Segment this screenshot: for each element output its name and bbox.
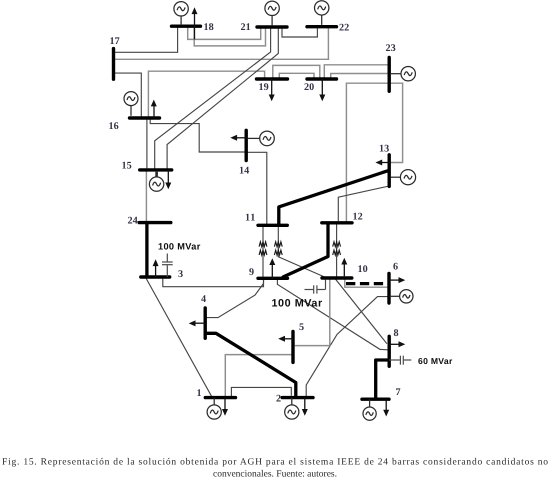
wire 17-22 (114, 28, 329, 60)
generator bus 22 (315, 1, 329, 25)
svg-text:1: 1 (197, 388, 202, 399)
load arrow bus 1 (down) (222, 398, 228, 416)
svg-text:21: 21 (241, 22, 251, 33)
svg-text:12: 12 (353, 211, 363, 222)
wire 8-9 (277, 279, 387, 349)
load arrow bus 6 (right) (389, 277, 405, 283)
generator bus 13 (391, 170, 416, 185)
wire 19-20 circuit 2 (279, 73, 314, 77)
svg-text:18: 18 (204, 22, 214, 33)
wire 2-6 (306, 297, 389, 397)
generator bus 6 (390, 290, 413, 303)
svg-text:7: 7 (396, 387, 401, 398)
bus 14 (244, 130, 247, 160)
bus 21 (257, 25, 287, 28)
capacitor 100 MVar bus 3 (162, 254, 173, 278)
line 6-10 dashed candidate (346, 282, 387, 285)
line 7-8 reinforcement (376, 360, 390, 399)
load arrow bus 14 (left) (230, 135, 246, 141)
bus 10 (322, 276, 352, 279)
svg-text:2: 2 (276, 394, 281, 405)
load arrow bus 10 (up) (341, 258, 347, 278)
wire 1-3 (146, 279, 211, 397)
bus 22 (307, 25, 337, 28)
bus 18 (172, 25, 201, 28)
bus 16 (130, 116, 160, 119)
bus 8 (388, 336, 391, 366)
bus 9 (258, 277, 288, 280)
bus 20 (307, 77, 337, 80)
wire 19-20 circuit 1 (273, 65, 320, 77)
transformer symbol 10-12 (333, 242, 341, 255)
bus 17 (112, 49, 115, 80)
wire 18-21 circuit 2 (194, 27, 265, 46)
wire 15-21 circuit 2 (167, 28, 278, 169)
bus 7 (362, 398, 389, 401)
svg-text:60 MVar: 60 MVar (418, 356, 453, 366)
wire 15-16 (146, 118, 148, 168)
wire 1-2 (231, 387, 291, 396)
bus 3 (141, 275, 170, 278)
line 11-13 reinforcement (279, 170, 389, 225)
svg-text:4: 4 (201, 294, 206, 305)
wire 12-23 (346, 83, 389, 221)
svg-text:23: 23 (386, 43, 396, 54)
generator bus 18 (174, 2, 188, 26)
svg-text:6: 6 (393, 262, 398, 273)
load arrow bus 9 (up) (269, 258, 275, 278)
generator bus 15 (149, 171, 163, 192)
capacitor 60 MVar bus 8 (389, 356, 411, 365)
wire 8-10 (336, 279, 387, 344)
wire 13-23 (389, 83, 402, 162)
generator bus 16 (124, 92, 138, 116)
wire 11-14 (246, 152, 267, 224)
svg-text:Fig. 15. Representación de la: Fig. 15. Representación de la solución o… (2, 458, 548, 468)
generator bus 2 (285, 398, 299, 420)
wire 6-10 thin (345, 279, 388, 287)
load arrow bus 16 (up) (151, 100, 157, 118)
bus 2 (282, 396, 313, 399)
svg-text:19: 19 (259, 82, 269, 93)
bus 13 (388, 155, 391, 187)
svg-text:11: 11 (245, 213, 256, 224)
generator bus 23 (390, 67, 415, 81)
wire 20-23 circuit 1 (324, 65, 388, 78)
wire 16-19 (148, 71, 264, 117)
bus 12 (322, 221, 352, 224)
transformer symbol 9-11 (259, 242, 267, 255)
generator bus 7 (363, 399, 376, 420)
load arrow bus 15 (down) (165, 170, 171, 189)
load arrow bus 20 (down) (319, 79, 325, 101)
wire 15-24 (145, 172, 147, 222)
wire 20-23 circuit 2 (331, 74, 388, 78)
svg-text:20: 20 (304, 82, 314, 93)
svg-text:15: 15 (122, 161, 132, 172)
bus 24 (139, 221, 171, 224)
wire 14-16 (150, 119, 246, 152)
bus 6 (387, 274, 390, 304)
svg-text:8: 8 (394, 328, 399, 339)
load arrow bus 2 (down) (302, 398, 308, 416)
wire 4-9 (206, 279, 264, 317)
wire transformer 9-11 (262, 226, 264, 277)
load arrow bus 3 (up) (153, 259, 159, 277)
svg-text:100 MVar: 100 MVar (158, 241, 201, 251)
line 9-12 reinforcement (283, 223, 328, 278)
wire transformer 10-11 (278, 226, 324, 277)
load arrow bus 13 (left) (375, 160, 389, 166)
load arrow bus 19 (down) (269, 79, 275, 101)
generator bus 14 (248, 131, 274, 146)
wire 18-21 circuit 1 (188, 27, 261, 39)
load arrow bus 18 (up) (192, 7, 198, 39)
wire 12-13 (338, 186, 389, 221)
svg-text:convencionales. Fuente: autore: convencionales. Fuente: autores. (213, 470, 337, 480)
capacitor 100 MVar bus 10 (305, 280, 326, 294)
wire 17-18 (114, 27, 178, 52)
bus 11 (258, 224, 287, 227)
wire 1-5 (225, 355, 291, 397)
generator bus 1 (207, 398, 221, 420)
svg-text:100 MVar: 100 MVar (272, 297, 323, 309)
svg-text:17: 17 (110, 36, 120, 47)
bus 1 (205, 396, 235, 399)
wire 3-9 (163, 279, 264, 287)
bus 23 (388, 58, 391, 92)
svg-text:16: 16 (109, 121, 119, 132)
generator bus 21 (265, 1, 279, 26)
bus 5 (291, 332, 294, 363)
wire 15-21 circuit 1 (155, 28, 271, 169)
load arrow bus 5 (left) (278, 336, 293, 342)
svg-text:14: 14 (239, 166, 249, 177)
wire transformer 10-12 (336, 224, 338, 276)
wire 5-10 (295, 279, 330, 345)
transformer symbol 10-11 (274, 242, 282, 255)
svg-text:9: 9 (249, 267, 254, 278)
svg-text:13: 13 (379, 144, 389, 155)
load arrow bus 8 (right) (389, 341, 405, 347)
bus 19 (257, 77, 288, 80)
wire 16-17 (114, 73, 142, 117)
bus 15 (140, 168, 172, 171)
wire 21-22 (282, 28, 317, 37)
svg-text:24: 24 (128, 216, 138, 227)
bus 4 (203, 308, 206, 338)
svg-text:10: 10 (358, 264, 368, 275)
line 2-4 reinforcement (205, 333, 296, 397)
load arrow bus 7 (down) (383, 399, 389, 416)
svg-text:5: 5 (299, 322, 304, 333)
svg-text:22: 22 (339, 23, 349, 34)
load arrow bus 4 (left) (189, 320, 206, 326)
svg-text:3: 3 (178, 269, 183, 280)
line 3-24 reinforcement (145, 223, 148, 277)
